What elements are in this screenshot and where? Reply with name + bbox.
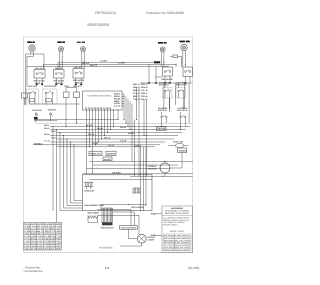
svg-text:BK PWR: BK PWR bbox=[113, 171, 122, 174]
svg-text:Publication No. 5995410848: Publication No. 5995410848 bbox=[146, 11, 184, 15]
svg-text:WIRING DIAGRAM: WIRING DIAGRAM bbox=[87, 22, 109, 27]
svg-text:FEF352ASCA: FEF352ASCA bbox=[95, 11, 117, 15]
svg-text:WH-3: WH-3 bbox=[133, 86, 141, 89]
svg-text:CONN: CONN bbox=[179, 149, 187, 152]
svg-text:LOCK MOTOR SW: LOCK MOTOR SW bbox=[44, 85, 56, 88]
svg-text:PR-23: PR-23 bbox=[108, 144, 114, 147]
svg-text:SURF UNIT SW: SURF UNIT SW bbox=[162, 78, 173, 81]
svg-text:RD-17: RD-17 bbox=[75, 66, 82, 69]
svg-text:POSITION.: POSITION. bbox=[163, 224, 179, 227]
svg-text:WIRE CODE: WIRE CODE bbox=[170, 230, 185, 233]
svg-text:YL-6: YL-6 bbox=[44, 140, 50, 143]
svg-text:GND: GND bbox=[151, 234, 158, 237]
svg-text:PROBE JACK: PROBE JACK bbox=[90, 153, 101, 156]
svg-text:SENSOR: SENSOR bbox=[107, 153, 116, 156]
svg-text:DOOR SW: DOOR SW bbox=[48, 109, 56, 112]
svg-text:RD-15: RD-15 bbox=[36, 67, 43, 70]
svg-text:DLB RELAY: DLB RELAY bbox=[158, 109, 168, 112]
svg-text:BROIL RELAY: BROIL RELAY bbox=[176, 84, 188, 87]
svg-text:GY-18: GY-18 bbox=[88, 133, 94, 136]
svg-text:RD-16: RD-16 bbox=[55, 67, 62, 70]
svg-text:OVEN LAMP SW: OVEN LAMP SW bbox=[131, 206, 143, 209]
svg-text:WH-14: WH-14 bbox=[120, 126, 127, 129]
svg-text:L1 RD: L1 RD bbox=[100, 60, 108, 63]
svg-text:L2 BK: L2 BK bbox=[118, 62, 126, 65]
svg-text:BROIL ELEMENT: BROIL ELEMENT bbox=[88, 212, 100, 215]
svg-text:HI-LIMIT: HI-LIMIT bbox=[104, 158, 112, 161]
svg-text:MDL RELAY: MDL RELAY bbox=[178, 109, 189, 112]
svg-text:TERM BLK: TERM BLK bbox=[34, 142, 43, 145]
svg-text:OR-9: OR-9 bbox=[135, 144, 141, 147]
svg-text:2600 W: 2600 W bbox=[75, 82, 83, 85]
svg-text:BAKE RELAY: BAKE RELAY bbox=[159, 84, 170, 87]
svg-text:TN-20: TN-20 bbox=[92, 142, 98, 145]
svg-text:BR-19: BR-19 bbox=[104, 136, 110, 139]
svg-text:YL-8: YL-8 bbox=[120, 140, 126, 143]
svg-text:RD-2: RD-2 bbox=[44, 127, 50, 130]
svg-text:19: 19 bbox=[105, 266, 110, 270]
svg-text:9 BR PROBE-BR 17 BU ELEM-BU: 9 BR PROBE-BR 17 BU ELEM-BU bbox=[24, 245, 62, 248]
svg-text:BU-6: BU-6 bbox=[128, 132, 134, 135]
svg-text:L1 N: L1 N bbox=[114, 105, 121, 108]
svg-text:WIRE RECEPTACLE: WIRE RECEPTACLE bbox=[101, 226, 114, 229]
svg-text:MOTOR: MOTOR bbox=[148, 167, 157, 170]
svg-text:(9-05): (9-05) bbox=[188, 266, 200, 270]
svg-text:OVEN LIGHT SWITCH: OVEN LIGHT SWITCH bbox=[121, 226, 137, 229]
svg-text:DOOR LOCK: DOOR LOCK bbox=[28, 85, 37, 88]
svg-text:BEFORE SERVICING: BEFORE SERVICING bbox=[165, 212, 190, 215]
svg-text:TOD: TOD bbox=[151, 213, 158, 216]
svg-text:WH-3: WH-3 bbox=[51, 130, 57, 133]
svg-text:BK-1: BK-1 bbox=[44, 124, 50, 127]
svg-text:GND GN CHASSIS GROUND WIRE: GND GN CHASSIS GROUND WIRE bbox=[24, 247, 62, 250]
svg-text:LOCK MOTOR: LOCK MOTOR bbox=[32, 109, 42, 112]
svg-text:P/N 316245200: P/N 316245200 bbox=[99, 246, 113, 249]
svg-text:RD-21: RD-21 bbox=[97, 127, 103, 130]
svg-text:GN-5: GN-5 bbox=[51, 137, 57, 140]
svg-text:BK-12: BK-12 bbox=[90, 64, 98, 67]
svg-text:LIGHT: LIGHT bbox=[148, 238, 156, 241]
svg-text:BK-22: BK-22 bbox=[86, 124, 92, 127]
svg-text:* Non-Illustrated Parts.: * Non-Illustrated Parts. bbox=[23, 270, 43, 273]
svg-text:RD-10: RD-10 bbox=[82, 62, 90, 65]
svg-text:1500 W: 1500 W bbox=[35, 82, 43, 85]
svg-text:PK-11: PK-11 bbox=[141, 98, 149, 101]
svg-text:1500 W: 1500 W bbox=[55, 82, 63, 85]
svg-text:ELECTRONIC OVEN CONTROL: ELECTRONIC OVEN CONTROL bbox=[88, 95, 113, 98]
svg-text:COOL FAN: COOL FAN bbox=[173, 141, 184, 144]
svg-text:BAKE ELEM: BAKE ELEM bbox=[85, 189, 95, 192]
